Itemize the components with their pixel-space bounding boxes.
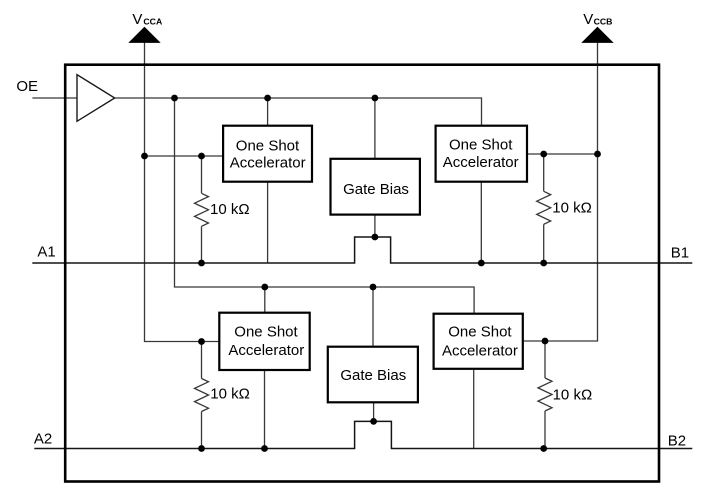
svg-text:CCB: CCB	[594, 17, 613, 27]
svg-text:A2: A2	[34, 431, 52, 448]
svg-text:10 kΩ: 10 kΩ	[210, 385, 250, 402]
svg-text:One Shot: One Shot	[448, 324, 512, 341]
svg-text:B1: B1	[671, 244, 689, 261]
svg-text:Accelerator: Accelerator	[228, 342, 304, 359]
svg-text:V: V	[583, 11, 593, 28]
svg-text:Accelerator: Accelerator	[442, 343, 518, 360]
svg-text:Gate Bias: Gate Bias	[343, 181, 409, 198]
svg-text:One Shot: One Shot	[236, 138, 300, 155]
svg-text:A1: A1	[37, 243, 55, 260]
svg-text:OE: OE	[16, 78, 38, 95]
svg-text:V: V	[132, 11, 142, 28]
svg-text:One Shot: One Shot	[234, 323, 298, 340]
svg-text:One Shot: One Shot	[449, 136, 513, 153]
svg-text:Accelerator: Accelerator	[230, 155, 306, 172]
svg-text:10 kΩ: 10 kΩ	[553, 387, 593, 404]
svg-text:CCA: CCA	[143, 17, 163, 27]
svg-text:10 kΩ: 10 kΩ	[552, 199, 592, 216]
svg-text:Gate Bias: Gate Bias	[340, 367, 406, 384]
svg-text:B2: B2	[668, 433, 686, 450]
svg-text:10 kΩ: 10 kΩ	[210, 201, 250, 218]
svg-text:Accelerator: Accelerator	[443, 154, 519, 171]
